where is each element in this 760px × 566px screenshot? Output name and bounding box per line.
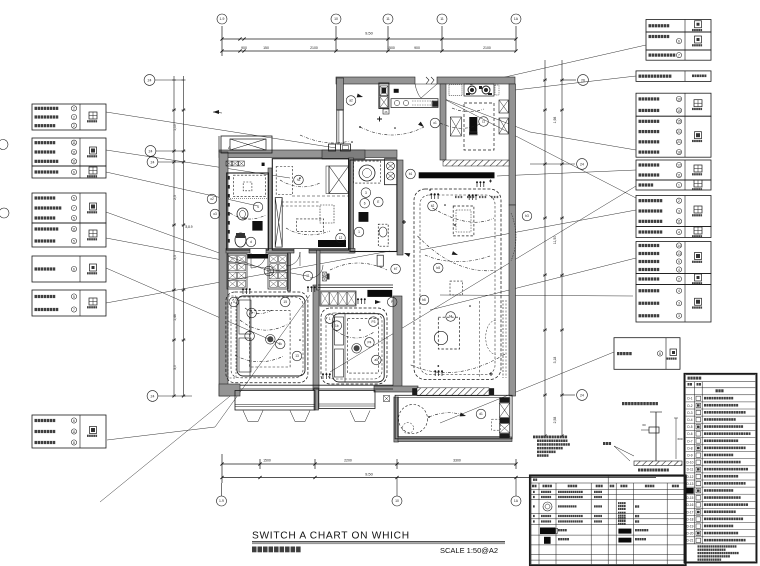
svg-text:P4: P4 (367, 341, 371, 345)
svg-text:2: 2 (73, 107, 75, 111)
svg-text:d1: d1 (479, 412, 483, 416)
svg-text:2200: 2200 (344, 459, 352, 463)
svg-text:24: 24 (148, 78, 152, 82)
svg-text:a5: a5 (375, 358, 379, 362)
svg-text:2: 2 (678, 199, 680, 203)
svg-text:900: 900 (414, 46, 420, 50)
svg-text:o2: o2 (210, 197, 214, 201)
svg-text:4: 4 (678, 289, 680, 293)
svg-text:o3: o3 (213, 212, 217, 216)
svg-text:24: 24 (151, 160, 155, 164)
svg-text:a2: a2 (349, 99, 353, 103)
svg-text:11: 11 (306, 274, 310, 278)
svg-text:24: 24 (580, 162, 584, 166)
svg-text:11: 11 (72, 160, 76, 164)
svg-text:D-21: D-21 (687, 539, 694, 543)
svg-text:b6: b6 (422, 298, 426, 302)
svg-text:13: 13 (267, 269, 271, 273)
svg-text:P: P (391, 300, 393, 304)
svg-text:3300: 3300 (453, 459, 461, 463)
svg-text:3: 3 (365, 191, 367, 195)
svg-text:D-4: D-4 (687, 418, 692, 422)
svg-text:600: 600 (677, 437, 682, 441)
svg-text:4: 4 (678, 268, 680, 272)
svg-text:D-3: D-3 (687, 411, 692, 415)
svg-text:150: 150 (263, 46, 269, 50)
svg-text:11: 11 (72, 227, 76, 231)
svg-text:13: 13 (295, 354, 299, 358)
svg-text:5: 5 (73, 216, 75, 220)
svg-text:3,0: 3,0 (173, 365, 177, 370)
svg-text:24: 24 (149, 149, 153, 153)
svg-text:1: 1 (358, 230, 360, 234)
svg-text:P3: P3 (371, 320, 375, 324)
svg-text:D-12: D-12 (687, 475, 694, 479)
svg-text:21: 21 (677, 140, 681, 144)
svg-text:12: 12 (677, 163, 681, 167)
svg-text:d: d (250, 240, 252, 244)
svg-text:1500: 1500 (387, 46, 395, 50)
svg-text:1-9: 1-9 (220, 17, 225, 21)
svg-text:6: 6 (73, 419, 75, 423)
svg-text:SCALE 1:50@A2: SCALE 1:50@A2 (440, 546, 498, 555)
svg-text:15: 15 (283, 300, 287, 304)
svg-text:10: 10 (677, 109, 681, 113)
svg-text:900: 900 (241, 46, 247, 50)
svg-text:24: 24 (151, 394, 155, 398)
svg-text:D-11: D-11 (687, 468, 694, 472)
svg-text:1A: 1A (514, 17, 519, 21)
svg-text:7: 7 (249, 334, 251, 338)
svg-text:D-10: D-10 (687, 461, 694, 465)
svg-text:4: 4 (678, 230, 680, 234)
svg-text:11: 11 (677, 173, 681, 177)
svg-text:D-1: D-1 (687, 397, 692, 401)
svg-text:10: 10 (677, 97, 681, 101)
svg-text:D-13: D-13 (687, 482, 694, 486)
svg-text:D-15: D-15 (687, 496, 694, 500)
svg-text:D-6: D-6 (687, 432, 692, 436)
svg-text:2: 2 (678, 277, 680, 281)
svg-text:1,10: 1,10 (173, 124, 177, 131)
svg-text:13: 13 (677, 252, 681, 256)
svg-text:D-7: D-7 (687, 439, 692, 443)
svg-text:8: 8 (73, 441, 75, 445)
svg-text:6: 6 (73, 267, 75, 271)
svg-text:11: 11 (440, 17, 444, 21)
svg-text:3: 3 (678, 302, 680, 306)
svg-text:b3: b3 (525, 214, 529, 218)
svg-text:D-19: D-19 (687, 524, 694, 528)
svg-text:24: 24 (580, 393, 584, 397)
svg-text:7: 7 (73, 308, 75, 312)
svg-text:2,58: 2,58 (553, 417, 557, 424)
svg-text:1: 1 (678, 183, 680, 187)
svg-text:2: 2 (73, 124, 75, 128)
svg-text:4: 4 (257, 205, 259, 209)
svg-text:A: A (228, 145, 231, 150)
svg-text:1b: 1b (335, 324, 339, 328)
svg-text:3,5: 3,5 (173, 255, 177, 260)
svg-text:5: 5 (73, 295, 75, 299)
svg-text:18: 18 (677, 150, 681, 154)
svg-text:SWITCH A CHART ON WHICH: SWITCH A CHART ON WHICH (252, 531, 410, 542)
svg-text:3,18: 3,18 (553, 357, 557, 364)
svg-text:o1: o1 (433, 121, 437, 125)
svg-text:8: 8 (659, 352, 661, 356)
svg-text:D-16: D-16 (687, 503, 694, 507)
svg-text:D-5: D-5 (687, 425, 692, 429)
svg-text:b8: b8 (436, 266, 440, 270)
svg-text:D-20: D-20 (687, 532, 694, 536)
svg-text:9,50: 9,50 (365, 471, 374, 476)
svg-text:11: 11 (72, 430, 76, 434)
svg-text:E: E (377, 200, 379, 204)
svg-text:1-9: 1-9 (219, 499, 224, 503)
svg-text:1A: 1A (514, 499, 519, 503)
svg-text:9: 9 (678, 260, 680, 264)
svg-text:D-8: D-8 (687, 446, 692, 450)
svg-text:7: 7 (678, 54, 680, 58)
svg-text:D-2: D-2 (687, 404, 692, 408)
svg-text:60: 60 (642, 423, 646, 427)
svg-text:D-17: D-17 (687, 510, 694, 514)
svg-text:7: 7 (73, 206, 75, 210)
svg-text:2: 2 (73, 115, 75, 119)
svg-text:1,46: 1,46 (173, 314, 177, 321)
svg-text:6: 6 (678, 39, 680, 43)
svg-text:11: 11 (677, 220, 681, 224)
svg-text:2100: 2100 (483, 46, 491, 50)
svg-text:6: 6 (73, 170, 75, 174)
svg-text:9,50: 9,50 (365, 31, 374, 36)
svg-text:15: 15 (677, 120, 681, 124)
svg-text:3: 3 (678, 209, 680, 213)
svg-text:14: 14 (677, 244, 681, 248)
svg-text:21: 21 (677, 130, 681, 134)
svg-text:b1: b1 (409, 172, 413, 176)
svg-text:12: 12 (339, 236, 343, 240)
svg-text:11,50: 11,50 (553, 236, 557, 244)
svg-text:8,8.9: 8,8.9 (185, 225, 192, 229)
svg-text:D-9: D-9 (687, 453, 692, 457)
svg-text:6: 6 (364, 201, 366, 205)
svg-text:2,5: 2,5 (173, 195, 177, 200)
svg-text:2100: 2100 (310, 46, 318, 50)
svg-text:26: 26 (581, 78, 585, 82)
svg-text:11: 11 (72, 141, 76, 145)
svg-text:10: 10 (395, 499, 399, 503)
svg-text:11: 11 (386, 17, 390, 21)
svg-text:1500: 1500 (263, 459, 271, 463)
svg-text:D-18: D-18 (687, 517, 694, 521)
svg-text:b2: b2 (431, 204, 435, 208)
svg-text:11: 11 (72, 150, 76, 154)
svg-text:b4: b4 (449, 315, 453, 319)
svg-text:10: 10 (334, 17, 338, 21)
svg-text:c1: c1 (482, 120, 486, 124)
svg-text:1: 1 (329, 317, 331, 321)
svg-text:1k: 1k (279, 342, 283, 346)
svg-text:3: 3 (678, 314, 680, 318)
svg-text:5: 5 (73, 239, 75, 243)
svg-text:5: 5 (73, 196, 75, 200)
svg-text:1,98: 1,98 (553, 117, 557, 124)
svg-text:4: 4 (233, 300, 235, 304)
svg-text:b7: b7 (394, 267, 398, 271)
